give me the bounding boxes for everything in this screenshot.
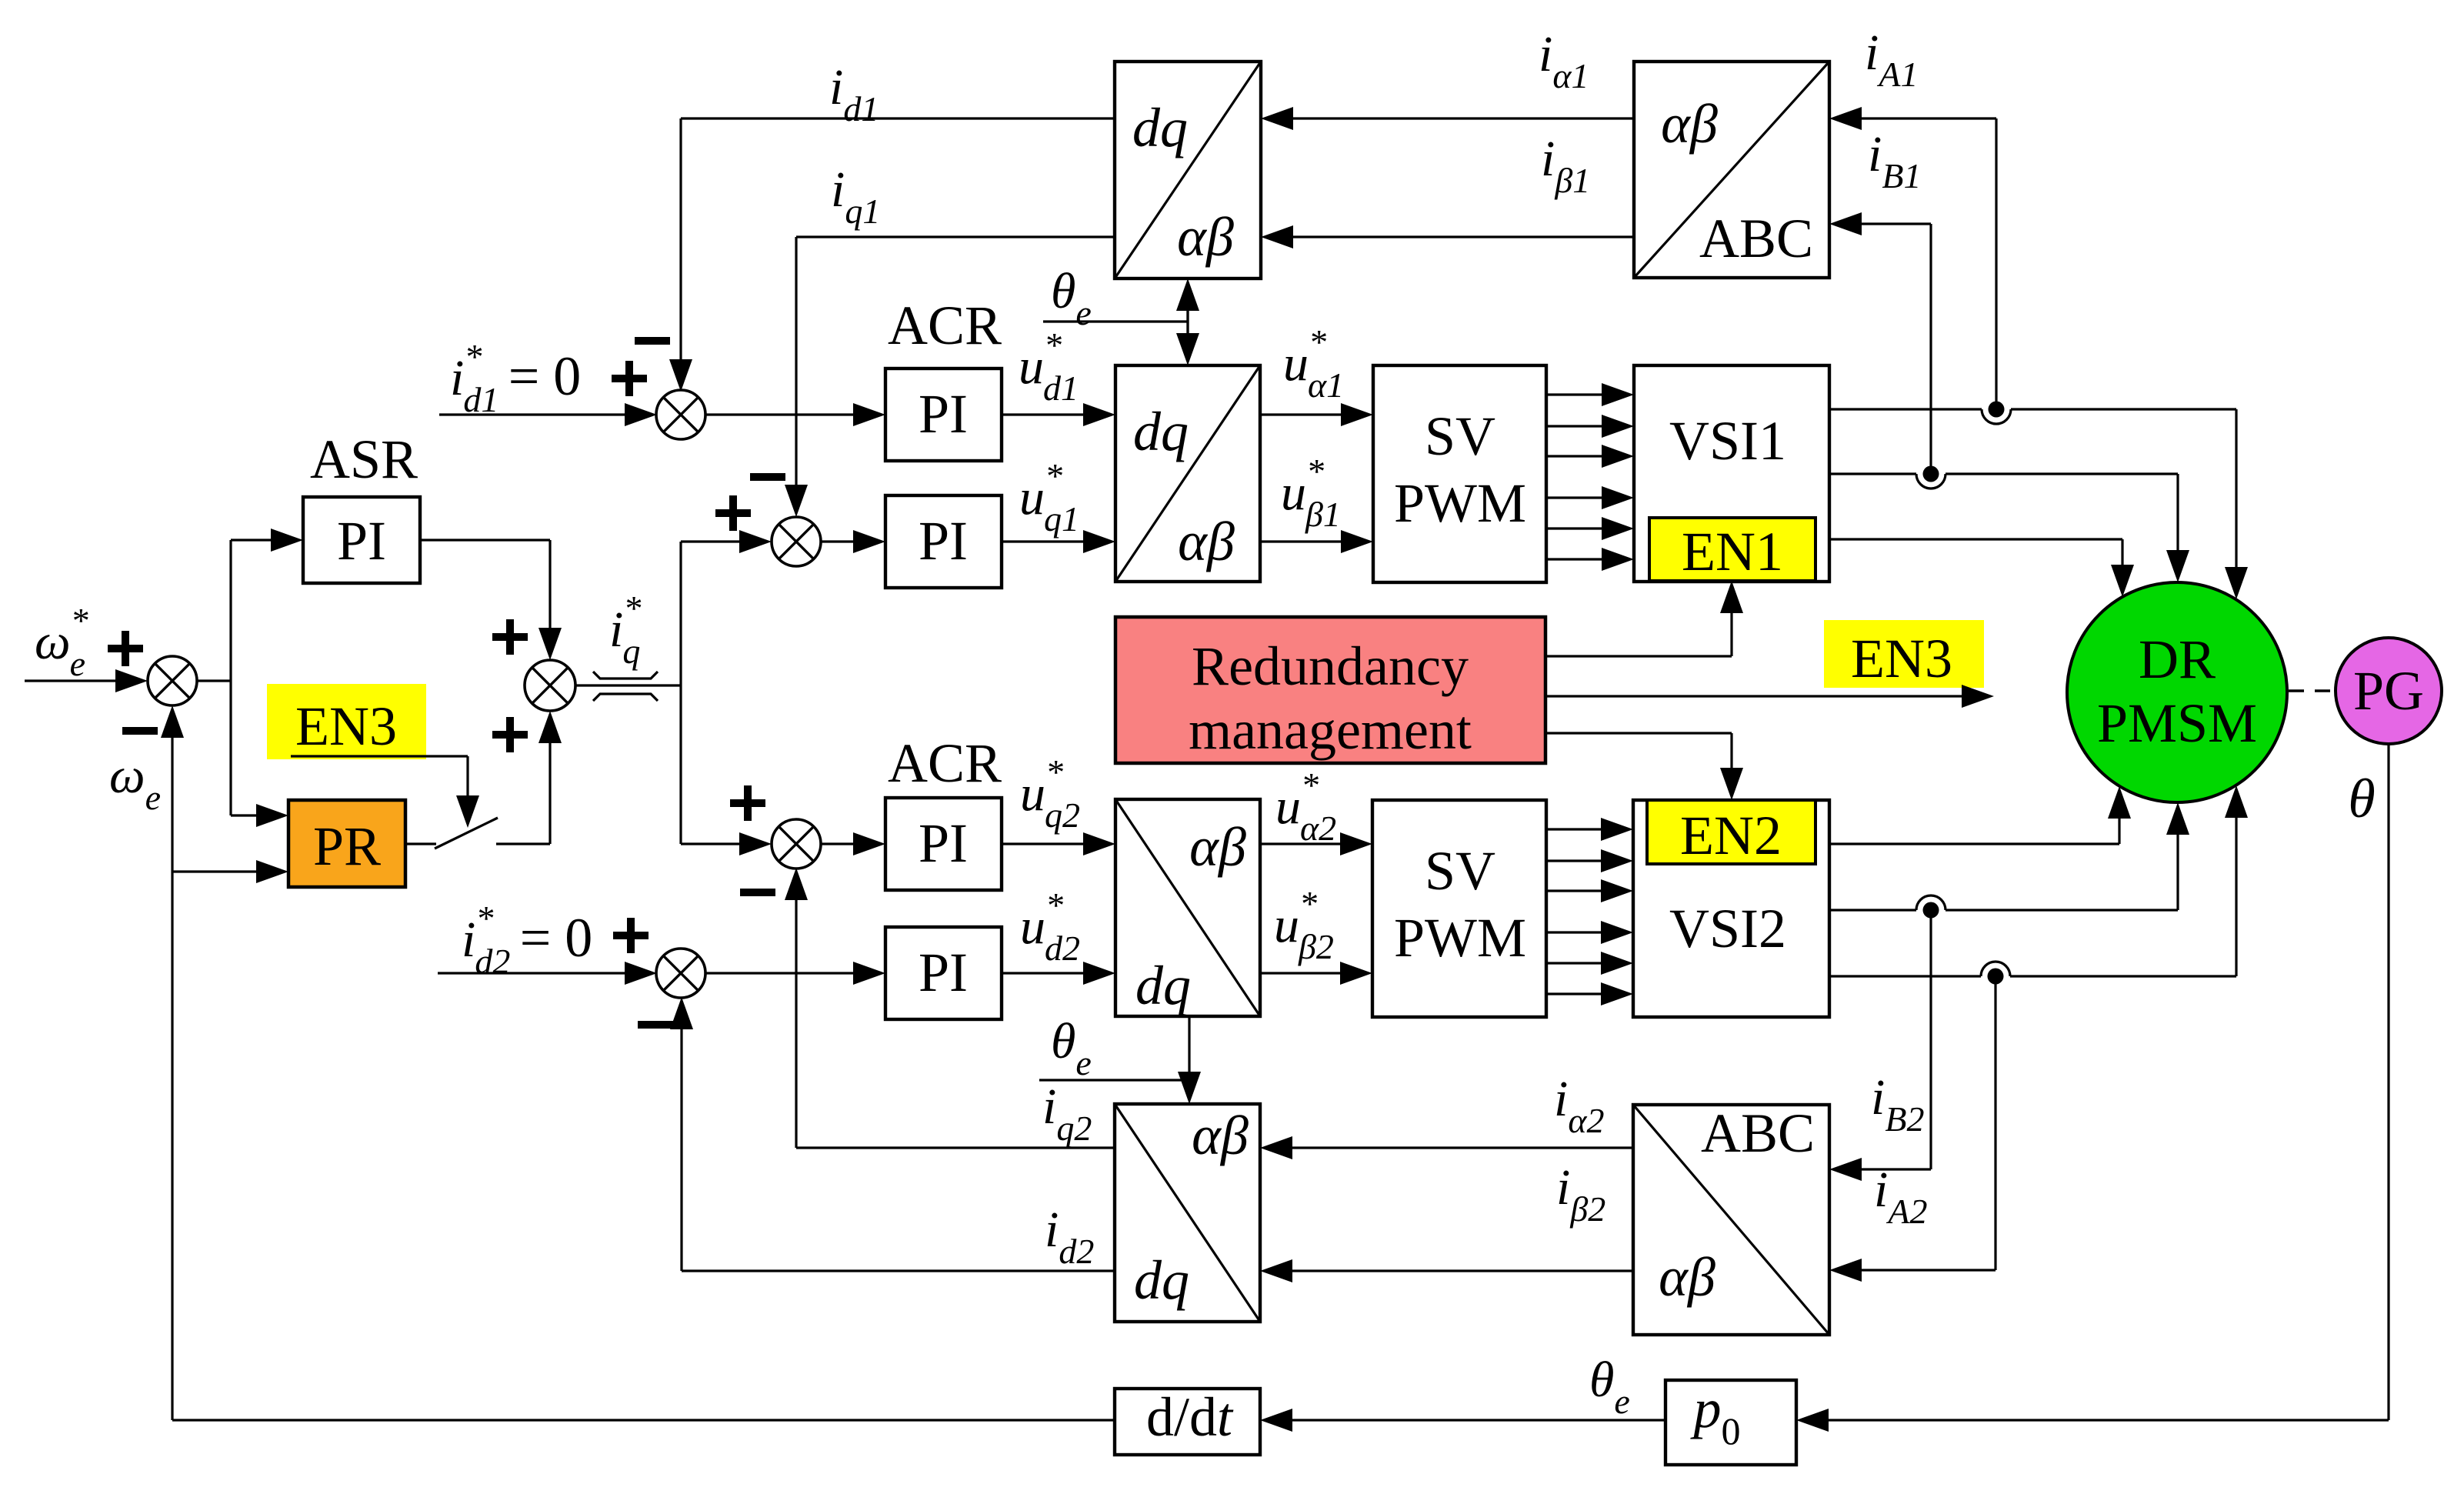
svg-text:VSI2: VSI2 <box>1669 898 1786 959</box>
svg-text:dq: dq <box>1133 401 1189 462</box>
svg-text:= 0: = 0 <box>508 345 582 407</box>
plus sign SJ1 <box>612 375 647 382</box>
svg-text:dq: dq <box>1132 97 1188 158</box>
wire theta_e D to E <box>1188 1016 1190 1095</box>
block ab/dq feedback 2 (alphabeta->dq) <box>1115 1104 1260 1322</box>
svg-text:EN2: EN2 <box>1680 805 1782 866</box>
wire i_alpha2 F to E <box>1292 1146 1633 1149</box>
svg-text:EN3: EN3 <box>1851 628 1952 689</box>
svg-text:Redundancy: Redundancy <box>1192 635 1469 697</box>
minus sign at SJ0 <box>122 727 158 735</box>
wire u_alpha2* D to SVPWM2 <box>1260 842 1340 845</box>
circle DR PMSM <box>2067 582 2287 802</box>
wire i_d2 feedback <box>682 1269 1115 1272</box>
wire i_A2 to block F <box>1994 976 1996 1270</box>
wire PG to p0 <box>2387 744 2389 1420</box>
wire VSI2 phase A <box>1829 975 1981 977</box>
wire to ASR PI <box>231 539 272 541</box>
svg-text:αβ: αβ <box>1177 206 1234 268</box>
minus sign at SJ1 <box>635 337 670 345</box>
block SV PWM 2 <box>1372 800 1546 1017</box>
wire i_beta2 F to E <box>1292 1269 1633 1272</box>
svg-text:DR: DR <box>2139 629 2216 690</box>
wire i_d2*=0 input <box>438 972 625 974</box>
svg-text:αβ: αβ <box>1178 511 1235 572</box>
sensor tap i_A2 <box>1981 962 2010 976</box>
svg-text:PMSM: PMSM <box>2097 692 2257 754</box>
wire i_B1 into B <box>1862 222 1931 225</box>
plus sign SJ2 left <box>715 509 751 517</box>
svg-text:ACR: ACR <box>888 732 1002 794</box>
plus sign SJ3 top <box>492 633 528 641</box>
svg-text:SV: SV <box>1425 405 1495 467</box>
highlight EN3 left box <box>267 684 426 759</box>
wire VSI2 phase B <box>1829 909 1916 911</box>
wire i_B2 to block F <box>1929 910 1932 1169</box>
svg-text:dq: dq <box>1135 955 1191 1016</box>
plus sign at SJ0 <box>108 645 143 652</box>
block SV PWM 1 <box>1373 365 1546 582</box>
wires SVPWM2 to VSI2 gate signals <box>1546 828 1601 830</box>
block PR <box>288 800 405 887</box>
wire PR output to switch <box>405 842 436 845</box>
highlight EN3 right box <box>1824 620 1984 688</box>
svg-text:αβ: αβ <box>1659 1246 1715 1308</box>
highlight EN1 box <box>1649 518 1815 581</box>
summing junction SJ4 (q2) <box>772 819 821 869</box>
summing junction SJ3 (iq*) <box>525 660 575 711</box>
wire VSI1 phase B <box>1829 472 1916 475</box>
svg-text:d/dt: d/dt <box>1146 1386 1234 1448</box>
minus sign SJ5 <box>638 1021 673 1029</box>
summing junction SJ1 (d1) <box>656 390 705 439</box>
summing junction SJ2 (q1) <box>772 517 821 566</box>
minus sign SJ4 <box>740 889 775 896</box>
wire PI d1 to block C <box>1002 413 1083 415</box>
wire ASR PI to SJ3 <box>420 539 550 541</box>
theta_e underline bottom <box>1039 1079 1189 1081</box>
svg-text:PI: PI <box>337 510 386 572</box>
svg-text:θ: θ <box>2348 768 2375 829</box>
svg-text:= 0: = 0 <box>520 907 593 969</box>
svg-text:VSI1: VSI1 <box>1669 410 1786 472</box>
svg-text:αβ: αβ <box>1661 93 1718 155</box>
block ab/dq modulation 2 (alphabeta<-dq) <box>1115 799 1260 1016</box>
svg-text:αβ: αβ <box>1192 1105 1249 1166</box>
minus sign at SJ2 <box>750 473 785 481</box>
block VSI1 <box>1634 365 1829 582</box>
plus sign SJ3 bottom <box>492 731 528 739</box>
wire u_beta2* D to SVPWM2 <box>1260 972 1340 974</box>
block alphabeta/ABC 1 <box>1634 62 1829 278</box>
block d/dt <box>1115 1389 1260 1455</box>
svg-text:EN1: EN1 <box>1682 521 1783 582</box>
block ASR PI <box>303 497 420 583</box>
wire red box to EN2 <box>1545 732 1732 734</box>
sensor tap i_B1 <box>1916 474 1946 489</box>
svg-text:PI: PI <box>919 383 968 445</box>
wire i_d1 feedback <box>681 117 1115 119</box>
wire u_beta1* C to SVPWM1 <box>1260 540 1341 542</box>
wire EN3 underline to switch <box>291 755 468 757</box>
block PI d1 <box>885 368 1002 461</box>
svg-text:ABC: ABC <box>1701 1102 1815 1164</box>
wire SJ1 to PI d1 <box>705 413 853 415</box>
wire SJ3 output <box>575 684 681 686</box>
wire speed feedback to SJ0 <box>172 1419 1115 1421</box>
svg-text:PWM: PWM <box>1394 907 1526 969</box>
wire omega* input <box>25 679 115 682</box>
break symbol on iq* wire <box>593 672 658 679</box>
block dq/ab feedback 1 (dq->alphabeta) <box>1115 62 1261 278</box>
wires SVPWM1 to VSI1 gate signals <box>1546 393 1602 395</box>
wire p0 to d/dt <box>1292 1419 1665 1421</box>
wire i_beta1 (B to A) <box>1293 235 1634 238</box>
plus sign SJ4 left <box>730 799 765 807</box>
theta_e underline top <box>1043 320 1188 322</box>
wire VSI1 phase A <box>1829 408 1982 410</box>
wire PI q2 to block D <box>1002 842 1083 845</box>
circle PG encoder <box>2336 638 2442 744</box>
svg-text:PG: PG <box>2353 660 2424 722</box>
wire i_d1*=0 input <box>439 413 625 415</box>
svg-text:PI: PI <box>919 510 968 572</box>
wire to PR upper input <box>231 814 258 816</box>
wire red box to EN1 <box>1545 655 1732 657</box>
svg-text:SV: SV <box>1425 840 1495 902</box>
wire switch to SJ3 bottom <box>496 842 550 845</box>
wire SJ4 to PI q2 <box>821 842 853 845</box>
wire iq* split riser <box>679 542 682 685</box>
block p0 <box>1665 1380 1796 1465</box>
svg-text:dq: dq <box>1134 1249 1189 1311</box>
plus sign SJ5 <box>613 932 649 939</box>
wire i_q2 feedback <box>796 1146 1115 1149</box>
block redundancy management <box>1115 617 1545 763</box>
svg-text:PWM: PWM <box>1394 472 1526 534</box>
double arrow theta_e into A and C <box>1186 311 1189 333</box>
wire EN3 arrow to motor <box>1545 695 1962 697</box>
wire SJ5 to PI d2 <box>705 972 853 974</box>
wire PI q1 to block C <box>1002 540 1083 542</box>
wire i_q1 feedback <box>796 235 1115 238</box>
wire SJ0 to split <box>197 679 231 682</box>
wire VSI1 EN line <box>1829 538 2122 540</box>
svg-text:αβ: αβ <box>1189 816 1246 878</box>
svg-text:management: management <box>1189 699 1472 761</box>
block ABC/ab 2 (ABC->alphabeta) <box>1633 1105 1829 1335</box>
highlight EN2 box <box>1647 800 1815 864</box>
block dq/ab modulation 1 (dq->alphabeta) <box>1115 365 1260 582</box>
wire i_alpha1 (B to A) <box>1293 117 1634 119</box>
switch blade <box>435 818 498 849</box>
summing junction SJ5 (d2) <box>656 949 705 998</box>
wire SJ2 to PI q1 <box>821 540 853 542</box>
dashed shaft link <box>2289 689 2336 692</box>
svg-text:EN3: EN3 <box>295 695 397 757</box>
wire PI d2 to block D <box>1002 972 1083 974</box>
summing junction SJ0 (speed) <box>148 656 197 705</box>
svg-text:PR: PR <box>313 815 381 877</box>
wire u_alpha1* C to SVPWM1 <box>1260 413 1341 415</box>
wire VSI2 EN line <box>1829 842 2119 845</box>
wire omega_e to PR lower input <box>172 870 258 872</box>
svg-text:ABC: ABC <box>1699 208 1813 269</box>
block PI q2 <box>885 798 1002 890</box>
block PI d2 <box>885 927 1002 1019</box>
sensor tap i_A1 <box>1982 409 2011 424</box>
wire i_A1 into B <box>1862 117 1996 119</box>
svg-text:ASR: ASR <box>310 429 418 490</box>
svg-text:PI: PI <box>919 942 968 1003</box>
svg-text:PI: PI <box>919 812 968 874</box>
block PI q1 <box>885 495 1002 588</box>
block VSI2 <box>1633 800 1829 1017</box>
sensor tap i_B2 <box>1916 895 1946 910</box>
svg-text:ACR: ACR <box>888 295 1002 356</box>
